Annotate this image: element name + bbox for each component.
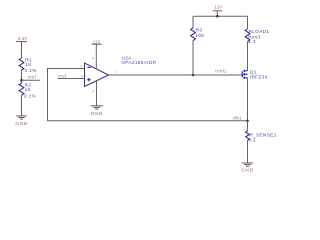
node 12V junction [216,15,219,18]
wire to R_SENSE1 [247,121,249,131]
svg-text:12V: 12V [93,39,101,44]
wire R3 to output net [192,41,194,75]
transistor Q1 [242,70,267,80]
wire op-amp output to gate [109,74,243,76]
svg-text:GND: GND [91,111,104,116]
svg-text:R3: R3 [196,27,203,32]
wire source down [247,78,249,121]
resistor RLOAD1 [245,29,269,44]
power 12V op-amp [92,39,102,68]
svg-text:RLOAD1: RLOAD1 [249,29,270,34]
wire pin4 [96,80,98,105]
node feedback junction [246,120,249,123]
ground GND left [15,116,28,126]
node R3 output junction [192,74,195,77]
node vref junction [20,79,23,82]
wire R1 to R2 [21,70,23,83]
power 12V top right [213,5,223,17]
svg-text:cntrl1: cntrl1 [215,69,227,74]
resistor R3 [191,27,206,40]
wire to RLOAD1 [247,16,249,29]
power 3.4V [16,36,27,58]
op-amp U2A [80,55,156,93]
svg-text:GND: GND [15,121,28,126]
svg-text:vref: vref [58,74,67,79]
svg-text:3: 3 [81,75,83,79]
wire 12V rail horizontal [193,15,248,17]
ground op-amp [91,106,104,116]
svg-text:1K: 1K [25,62,32,67]
svg-text:vref: vref [28,75,37,80]
svg-text:8: 8 [92,57,94,61]
svg-text:OPA2188AIDR: OPA2188AIDR [121,60,156,65]
svg-text:12V: 12V [214,5,222,10]
svg-text:GND: GND [241,167,254,172]
svg-text:0.1%: 0.1% [25,68,37,73]
wire vref stub [22,79,41,81]
wire to R3 [192,16,194,28]
wire R_SENSE1 to ground [247,140,249,163]
wire RLOAD1 to drain [247,42,249,71]
resistor R1 [19,57,36,72]
svg-text:2: 2 [80,65,82,69]
svg-text:1.3: 1.3 [248,39,256,44]
svg-text:1: 1 [115,70,117,74]
svg-text:10K: 10K [195,33,205,38]
svg-text:4: 4 [92,90,94,94]
svg-text:0.1: 0.1 [249,137,257,142]
ground GND right [241,163,254,172]
svg-text:3.4V: 3.4V [18,36,27,41]
resistor R2 [19,83,36,99]
wire pin2 feedback [48,69,248,121]
resistor R_SENSE1 [246,131,277,142]
svg-text:IRFZ34: IRFZ34 [250,74,268,79]
svg-text:vfb1: vfb1 [233,115,242,120]
wire R2 to ground [21,95,23,116]
wire pin3 vref [58,78,85,80]
svg-text:1K: 1K [25,87,32,92]
svg-text:0.1%: 0.1% [24,93,36,98]
